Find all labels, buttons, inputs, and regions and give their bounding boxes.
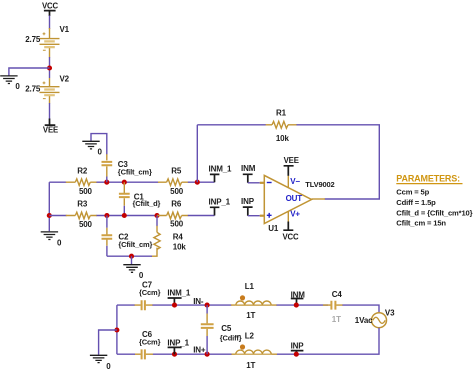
capacitor C4 bbox=[323, 290, 343, 324]
svg-text:IN-: IN- bbox=[193, 297, 204, 306]
node ground tap left bbox=[114, 327, 119, 332]
ground 0 (left of supplies) bbox=[0, 76, 20, 91]
wire INP to op-amp bbox=[248, 215, 260, 217]
svg-text:V1: V1 bbox=[60, 25, 70, 34]
svg-text:{Ccm}: {Ccm} bbox=[139, 288, 161, 297]
wire second rail to INP_1 port bbox=[188, 215, 215, 217]
svg-text:{Ccm}: {Ccm} bbox=[139, 337, 161, 346]
svg-text:0: 0 bbox=[106, 362, 111, 371]
node INM tap bbox=[294, 303, 299, 308]
svg-text:VEE: VEE bbox=[284, 156, 299, 165]
svg-text:R3: R3 bbox=[77, 199, 88, 208]
svg-text:TLV9002: TLV9002 bbox=[305, 180, 334, 189]
node R4 tap bbox=[154, 213, 159, 218]
svg-text:V−: V− bbox=[290, 177, 300, 186]
svg-text:Cdiff = 1.5p: Cdiff = 1.5p bbox=[396, 198, 436, 207]
wire bottom rail left bbox=[117, 353, 135, 355]
wire top rail left bbox=[49, 181, 66, 183]
node C3 tap on top rail bbox=[104, 180, 109, 185]
source V3 1Vac bbox=[355, 309, 395, 328]
wire to ground bbox=[99, 330, 117, 355]
battery V1 bbox=[25, 25, 69, 58]
svg-text:2.75: 2.75 bbox=[25, 35, 41, 44]
wire op-amp output lead bbox=[312, 198, 326, 200]
ground 0 (below filter left) bbox=[41, 232, 62, 247]
svg-text:Cfilt_cm = 15n: Cfilt_cm = 15n bbox=[396, 219, 446, 228]
svg-text:500: 500 bbox=[170, 187, 184, 196]
ground 0 (above C3) bbox=[82, 141, 102, 156]
svg-text:V3: V3 bbox=[385, 309, 395, 318]
wire top rail middle bbox=[97, 181, 159, 183]
capacitor C2 {Cfilt_cm} bbox=[102, 216, 153, 257]
svg-text:500: 500 bbox=[79, 187, 93, 196]
svg-text:VCC: VCC bbox=[282, 233, 299, 242]
svg-text:OUT: OUT bbox=[286, 194, 303, 203]
capacitor C5 {Cdiff} bbox=[201, 305, 242, 354]
inductor L1 1T bbox=[231, 282, 277, 320]
svg-text:1T: 1T bbox=[246, 311, 255, 320]
node VCC (top supply port) bbox=[42, 1, 59, 16]
node C1 tap on top rail bbox=[122, 180, 127, 185]
port INM (op-amp input) bbox=[241, 164, 256, 183]
port INP (op-amp input) bbox=[241, 197, 255, 216]
node ground tap bbox=[129, 254, 134, 259]
svg-text:C4: C4 bbox=[332, 290, 343, 299]
port INM (source side) bbox=[291, 290, 306, 305]
svg-text:L1: L1 bbox=[245, 282, 255, 291]
node VEE (bottom supply port) bbox=[43, 119, 58, 135]
wire C4 to V3 bbox=[343, 305, 380, 313]
node INM_1 tap bbox=[172, 303, 177, 308]
svg-text:INP_1: INP_1 bbox=[167, 338, 189, 347]
svg-text:10k: 10k bbox=[276, 134, 290, 143]
svg-text:{Cfilt_cm}: {Cfilt_cm} bbox=[118, 240, 152, 249]
wire source network left vertical bbox=[116, 305, 118, 354]
ground 0 (below C2/R4) bbox=[123, 265, 144, 280]
ground 0 (source network) bbox=[90, 355, 111, 371]
port INM_1 (filter output) bbox=[209, 165, 233, 183]
resistor R3 500 bbox=[66, 199, 97, 229]
svg-text:Cfilt_d = {Cfilt_cm*10}: Cfilt_d = {Cfilt_cm*10} bbox=[396, 208, 472, 217]
svg-text:R1: R1 bbox=[276, 109, 287, 118]
wire bottom of C2/R4 loop bbox=[107, 255, 152, 257]
port INM_1 (source side) bbox=[167, 288, 191, 305]
wire VCC to V1 bbox=[49, 16, 51, 30]
svg-text:R6: R6 bbox=[171, 199, 182, 208]
wire top source rail left bbox=[117, 304, 135, 306]
svg-text:L2: L2 bbox=[245, 331, 255, 340]
svg-text:INP: INP bbox=[291, 342, 305, 351]
svg-text:IN+: IN+ bbox=[193, 345, 206, 354]
node INP tap bbox=[294, 352, 299, 357]
svg-text:INM_1: INM_1 bbox=[167, 288, 191, 297]
node filter left junction bbox=[47, 213, 52, 218]
svg-text:1T: 1T bbox=[332, 315, 341, 324]
svg-text:0: 0 bbox=[139, 271, 144, 280]
node C1 bottom tap bbox=[122, 213, 127, 218]
capacitor C7 (Ccm) bbox=[135, 281, 161, 311]
svg-text:500: 500 bbox=[170, 220, 184, 229]
svg-text:VEE: VEE bbox=[43, 126, 58, 135]
port INP_1 (source side) bbox=[167, 338, 189, 354]
svg-text:INP: INP bbox=[241, 197, 255, 206]
battery V2 bbox=[25, 74, 69, 103]
svg-text:1T: 1T bbox=[246, 361, 255, 370]
capacitor C1 {Cfilt_d} bbox=[119, 182, 161, 215]
svg-text:R4: R4 bbox=[173, 233, 184, 242]
svg-text:1Vac: 1Vac bbox=[355, 316, 373, 325]
svg-text:C5: C5 bbox=[221, 324, 232, 333]
wire junction to ground bbox=[9, 68, 50, 76]
wire top rail to INM_1 port bbox=[188, 181, 215, 183]
svg-text:VCC: VCC bbox=[42, 1, 59, 10]
text PARAMETERS heading bbox=[396, 174, 462, 184]
wire second rail left bbox=[49, 215, 66, 217]
wire feedback top left bbox=[197, 124, 266, 126]
svg-text:2.75: 2.75 bbox=[25, 85, 41, 94]
inductor L2 1T bbox=[231, 331, 277, 370]
wire top rail to L1 bbox=[153, 304, 232, 306]
svg-text:R2: R2 bbox=[77, 166, 88, 175]
svg-text:V2: V2 bbox=[60, 74, 70, 83]
wire V2 to VEE bbox=[49, 103, 51, 120]
svg-text:Ccm = 5p: Ccm = 5p bbox=[396, 187, 429, 196]
node IN+ tap bbox=[205, 352, 210, 357]
svg-text:0: 0 bbox=[57, 238, 62, 247]
resistor R4 10k (vertical) bbox=[152, 216, 187, 257]
svg-text:PARAMETERS:: PARAMETERS: bbox=[396, 174, 460, 184]
svg-text:U1: U1 bbox=[268, 224, 279, 233]
resistor R5 500 bbox=[158, 166, 188, 196]
port VEE (op-amp V- pin) bbox=[284, 156, 299, 187]
svg-text:{Cfilt_d}: {Cfilt_d} bbox=[133, 199, 161, 208]
capacitor C6 (Ccm) bbox=[135, 330, 161, 359]
node IN- tap bbox=[205, 303, 210, 308]
svg-text:0: 0 bbox=[15, 82, 20, 91]
port INP_1 (filter output) bbox=[209, 197, 231, 215]
svg-text:{Cdiff}: {Cdiff} bbox=[220, 334, 242, 343]
wire C3 to ground loop bbox=[91, 134, 107, 155]
wire bottom rail middle bbox=[153, 353, 232, 355]
wire to ground bbox=[131, 256, 133, 264]
wire V1 to junction bbox=[49, 57, 51, 78]
svg-text:10k: 10k bbox=[173, 243, 187, 252]
wire second rail middle bbox=[97, 215, 158, 217]
resistor R1 10k bbox=[266, 109, 297, 144]
node C2 tap bbox=[104, 213, 109, 218]
wire L1 to C4 bbox=[277, 304, 329, 306]
svg-text:V+: V+ bbox=[290, 209, 300, 218]
node feedback tap bbox=[195, 180, 200, 185]
wire INM to op-amp bbox=[248, 182, 260, 184]
svg-text:R5: R5 bbox=[171, 166, 182, 175]
wire feedback left vertical bbox=[196, 125, 198, 182]
svg-text:INP_1: INP_1 bbox=[209, 197, 231, 206]
node supply midpoint junction bbox=[47, 65, 52, 70]
svg-text:500: 500 bbox=[79, 220, 93, 229]
capacitor C3 {Cfilt_cm} bbox=[102, 154, 152, 182]
op-amp U1 TLV9002 bbox=[264, 175, 334, 232]
svg-text:INM: INM bbox=[241, 164, 256, 173]
resistor R2 500 bbox=[66, 166, 97, 196]
resistor R6 500 bbox=[157, 199, 188, 228]
node INP_1 tap bbox=[172, 352, 177, 357]
wire V3 to bottom rail bbox=[277, 328, 380, 354]
port VCC (op-amp V+ pin) bbox=[282, 211, 299, 241]
svg-text:0: 0 bbox=[98, 147, 103, 156]
wire left vertical of filter bbox=[48, 182, 50, 231]
wire feedback top right + right vertical + to opamp output bbox=[297, 125, 380, 199]
svg-text:INM_1: INM_1 bbox=[209, 165, 233, 174]
port INP (source side) bbox=[291, 342, 305, 355]
svg-text:{Cfilt_cm}: {Cfilt_cm} bbox=[118, 168, 152, 177]
